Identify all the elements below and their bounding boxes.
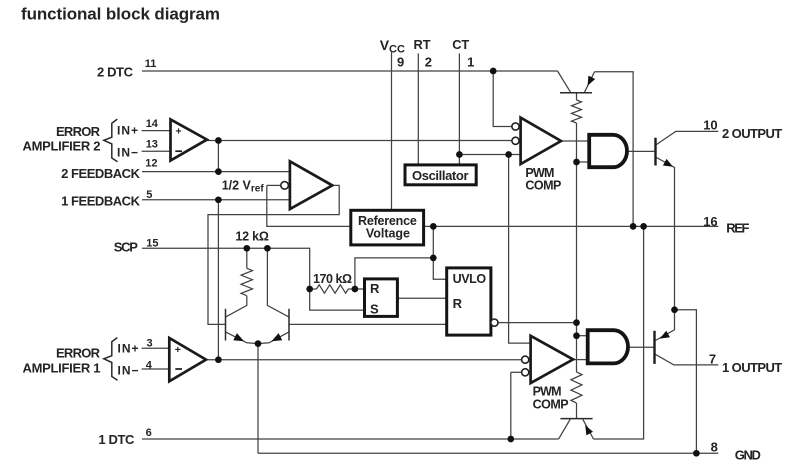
wire UVLO output	[498, 322, 577, 324]
svg-text:12 kΩ: 12 kΩ	[235, 229, 269, 243]
svg-text:11: 11	[145, 58, 157, 70]
bubble UVLO output	[491, 319, 498, 326]
svg-text:IN−: IN−	[118, 364, 139, 378]
wire Q4 base to UVLO	[289, 323, 447, 325]
resistor 170 kOhm	[317, 285, 349, 293]
svg-text:1/2 Vref: 1/2 Vref	[222, 179, 265, 195]
transistor Q4 (SCP pair right) base bar	[288, 309, 290, 341]
wire 1 FEEDBACK pin 5	[142, 199, 290, 201]
svg-text:2 FEEDBACK: 2 FEEDBACK	[61, 166, 141, 181]
wire CT to PWM COMP 2 sawtooth input	[459, 154, 520, 156]
box Reference Voltage	[351, 210, 424, 245]
wire 2 DTC branch down to PWM COMP 2 bubble input	[493, 71, 512, 127]
svg-text:7: 7	[709, 351, 716, 366]
svg-text:8: 8	[711, 440, 718, 455]
svg-text:170 kΩ: 170 kΩ	[313, 272, 352, 286]
arrow Q5 emitter	[588, 76, 596, 86]
wire Q7 emitter down	[657, 158, 675, 310]
svg-text:UVLO: UVLO	[453, 272, 487, 286]
svg-text:GND: GND	[735, 447, 761, 462]
wire Q3 emitter	[226, 332, 259, 344]
wire GND rail pin 8	[258, 452, 718, 454]
comparator PWM COMP 1	[531, 336, 574, 383]
wire 1 DTC to PWM COMP 1 bubble input	[511, 371, 522, 373]
box UVLO	[447, 268, 491, 335]
wire 1 DTC pin 6 horizontal	[142, 438, 559, 440]
wire REF pin 16 rail	[424, 225, 719, 227]
wire VCC pin 9 vertical into Reference Voltage	[391, 52, 393, 210]
wire IN+ pin 3	[142, 347, 170, 349]
transistor Q3 (SCP pair left) base bar	[225, 309, 227, 341]
svg-text:CT: CT	[452, 37, 469, 52]
wire 12k resistor to transistor Q3 collector	[226, 296, 247, 317]
wire 1/2 Vref from Reference Voltage box	[267, 185, 351, 226]
wire Q7 collector to 2 OUTPUT pin 10	[657, 131, 719, 144]
arrow Q4 emitter	[272, 333, 283, 341]
svg-text:ERROR: ERROR	[56, 124, 101, 139]
bubble PWM COMP 1 FB input	[522, 356, 529, 363]
wire Q6 emitter to REF rail	[594, 226, 644, 439]
wire emitter node to GND	[675, 310, 697, 454]
svg-text:AMPLIFIER 2: AMPLIFIER 2	[23, 138, 101, 153]
wire 170k node up to reference net	[355, 258, 433, 289]
wire to AND gate 2 lower input	[577, 161, 590, 163]
svg-text:RT: RT	[414, 37, 431, 52]
svg-text:COMP: COMP	[533, 398, 569, 412]
transistor Q8 (1 OUTPUT) base bar	[653, 331, 655, 364]
wire emitter tail to GND	[257, 344, 259, 454]
svg-text:Voltage: Voltage	[366, 227, 410, 241]
wire SCP comparator output loop to transistor base	[208, 185, 339, 324]
svg-text:1: 1	[467, 55, 474, 70]
svg-text:1 FEEDBACK: 1 FEEDBACK	[61, 193, 141, 208]
wire PWM COMP 2 output to AND gate 2	[561, 140, 589, 142]
wire reference branch into UVLO	[433, 258, 446, 279]
transistor Q5 leads	[558, 71, 595, 92]
wire IN- pin 13	[142, 150, 171, 152]
bubble 1/2 Vref input	[281, 182, 289, 190]
wire common drive vertical line	[576, 123, 578, 372]
wire error amplifier 2 output to PWM COMP 2 input	[207, 140, 512, 142]
svg-text:SCP: SCP	[114, 240, 139, 255]
wire 170k right to R input	[348, 288, 364, 290]
svg-text:functional block diagram: functional block diagram	[21, 4, 220, 23]
wire transistor Q5 base to resistor R2	[576, 93, 578, 100]
svg-text:AMPLIFIER 1: AMPLIFIER 1	[23, 360, 101, 375]
arrow Q8	[660, 331, 670, 339]
svg-text:Oscillator: Oscillator	[412, 168, 469, 183]
svg-text:2 OUTPUT: 2 OUTPUT	[722, 126, 782, 141]
svg-text:4: 4	[146, 359, 153, 371]
svg-text:13: 13	[146, 139, 158, 151]
arrow Q6 emitter	[585, 425, 593, 435]
transistor Q6 right lead	[583, 419, 594, 439]
svg-text:IN−: IN−	[117, 146, 138, 160]
wire 1 DTC branch vertical	[510, 372, 512, 439]
wire node to Q8	[655, 310, 675, 341]
svg-text:5: 5	[146, 189, 152, 201]
wire CT pin 1 vertical into Oscillator	[458, 53, 460, 164]
wire Q4 emitter	[258, 332, 289, 344]
svg-text:IN+: IN+	[117, 124, 138, 138]
svg-text:12: 12	[145, 157, 157, 169]
svg-text:3: 3	[147, 337, 153, 349]
wire resistor R1 to transistor Q6 base	[576, 403, 578, 419]
resistor R2 (channel 2 drive)	[572, 100, 582, 123]
wire Q8 to 1 OUTPUT pin 7	[655, 354, 719, 365]
svg-text:COMP: COMP	[525, 178, 561, 192]
svg-text:ERROR: ERROR	[56, 346, 101, 361]
wire PWM COMP 1 output to AND gate 1	[573, 359, 588, 361]
svg-text:14: 14	[146, 118, 159, 130]
svg-text:S: S	[370, 302, 379, 317]
comparator PWM COMP 2	[521, 118, 561, 164]
brace error amplifier 2	[104, 119, 118, 162]
svg-text:15: 15	[146, 237, 158, 249]
wire EA2 output to 2 FEEDBACK tie	[217, 141, 219, 172]
wire SCP pin 15 to 170k and S input	[142, 248, 365, 310]
wire AND gate 1 output to Q8 base	[629, 346, 655, 348]
transistor Q6 (1 DTC) base bar	[560, 418, 592, 420]
arrow Q3 emitter	[233, 333, 244, 341]
wire RT pin 2 vertical into Oscillator	[417, 53, 419, 164]
wire IN+ pin 14	[142, 130, 171, 132]
bubble PWM COMP 1 DTC input	[522, 369, 529, 376]
wire 2 FEEDBACK pin 12	[142, 171, 290, 173]
svg-text:10: 10	[703, 117, 717, 132]
op-amp SCP comparator (1/2 Vref buffer)	[290, 161, 332, 209]
resistor R1 (channel 1 drive)	[571, 372, 582, 403]
wire IN- pin 4	[142, 368, 170, 370]
svg-text:2 DTC: 2 DTC	[97, 65, 134, 80]
wire AND gate 2 output to Q7 base	[627, 150, 654, 152]
wire 2 DTC pin 11 horizontal	[142, 70, 558, 72]
svg-text:R: R	[453, 296, 463, 311]
wire reference branch down	[432, 226, 434, 258]
svg-text:R: R	[370, 281, 380, 296]
svg-text:6: 6	[146, 427, 152, 439]
wire 170k left stub	[310, 288, 317, 290]
svg-text:1 OUTPUT: 1 OUTPUT	[722, 360, 782, 375]
svg-text:1 DTC: 1 DTC	[98, 432, 135, 447]
svg-text:9: 9	[397, 55, 404, 70]
transistor Q7 (2 OUTPUT) base bar	[654, 138, 656, 166]
arrow Q7 emitter	[663, 159, 673, 167]
wire CT branch down to PWM COMP 1 top input	[509, 155, 531, 344]
transistor Q5 (2 DTC) base bar	[560, 92, 592, 94]
wire Q6 collector to 1 DTC	[559, 419, 571, 439]
svg-text:+: +	[175, 344, 181, 356]
wire 1/2 Vref bubble stub	[267, 184, 281, 186]
wire to AND gate 1 upper input	[577, 335, 588, 337]
AND gate 2	[589, 135, 627, 167]
bubble PWM COMP 2 FB input	[512, 137, 519, 144]
svg-text:+: +	[176, 126, 182, 138]
box Oscillator	[405, 165, 476, 185]
svg-text:CC: CC	[389, 43, 405, 55]
svg-text:REF: REF	[726, 220, 749, 235]
brace error amplifier 1	[104, 338, 118, 381]
svg-text:16: 16	[703, 214, 717, 229]
wire RS latch to UVLO R input	[397, 297, 446, 299]
wire Q5 emitter to REF rail	[595, 72, 634, 227]
AND gate 1	[588, 330, 628, 363]
svg-text:2: 2	[425, 55, 432, 70]
bubble PWM COMP 2 DTC input	[512, 123, 519, 130]
wire SCP to transistor Q4 collector	[267, 248, 289, 317]
box RS latch	[365, 279, 398, 317]
wire 1 FEEDBACK down to error amplifier 1 output	[217, 200, 219, 360]
resistor 12 kOhm	[241, 268, 252, 295]
svg-text:PWM: PWM	[533, 384, 562, 398]
op-amp error amplifier 1	[169, 338, 206, 381]
wire 12k resistor top link	[246, 248, 248, 268]
op-amp error amplifier 2	[171, 119, 207, 160]
svg-text:IN+: IN+	[118, 342, 139, 356]
wire error amplifier 1 output to PWM COMP 1 bubble input	[206, 359, 522, 361]
